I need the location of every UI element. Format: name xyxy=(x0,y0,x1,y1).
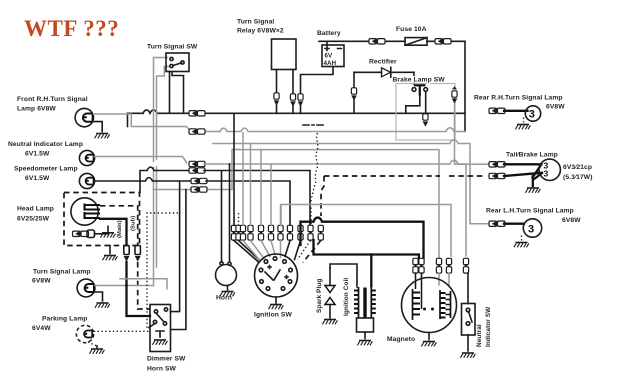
wire: relay pin1 to bus xyxy=(276,70,278,93)
spring connector right of brake SW xyxy=(452,91,458,104)
wire: gray loop ignition SW to magneto xyxy=(281,205,451,257)
svg-text:Turn Signal: Turn Signal xyxy=(237,19,274,26)
wire: black to rear LH lamp xyxy=(504,223,524,225)
ground front RH lamp xyxy=(95,134,110,139)
svg-text:WTF ???: WTF ??? xyxy=(24,16,119,41)
connector sub xyxy=(135,246,140,255)
wire: spark plug top lead xyxy=(330,264,357,287)
wire: speedometer black to connector xyxy=(94,178,193,181)
wire: top bus y=41.3 xyxy=(319,40,465,42)
svg-text:Fuse 10A: Fuse 10A xyxy=(396,26,427,33)
svg-text:3: 3 xyxy=(544,169,549,179)
wire: fan from connectors to ignition SW xyxy=(234,241,258,262)
lamp rear LH turn signal xyxy=(523,219,541,237)
wire: gray line y=189.5 xyxy=(154,189,193,191)
wire: drops from buses into connector row xyxy=(233,113,235,225)
svg-text:Rear L.H.Turn Signal Lamp: Rear L.H.Turn Signal Lamp xyxy=(486,208,574,215)
wire: neutral SW lead and ground xyxy=(467,273,469,351)
headlamp dashed enclosure xyxy=(64,193,140,246)
svg-text:3: 3 xyxy=(528,223,534,235)
lamp head lamp xyxy=(71,198,100,225)
battery BT1 xyxy=(322,45,344,67)
connector main xyxy=(124,246,129,255)
turn signal SW box xyxy=(166,53,189,72)
svg-text:Lamp 6V8W: Lamp 6V8W xyxy=(17,106,56,113)
wire: gray bus y=149.6 to magneto xyxy=(239,150,439,261)
wire: gray stub near dimmer xyxy=(120,279,167,289)
wire: gray lamp bus y=131.5 xyxy=(189,130,191,132)
svg-text:6V8W: 6V8W xyxy=(32,278,51,285)
lamp speedometer xyxy=(79,173,94,188)
svg-text:6V1.5W: 6V1.5W xyxy=(25,151,50,158)
wire: rear RH dotted ground lead xyxy=(523,118,525,123)
wire: rectifier input vertical xyxy=(353,72,355,87)
wire: gray bus y=143.5 to rear LH lamp xyxy=(213,140,490,224)
dashed brake wire xyxy=(324,175,483,177)
wire: magneto ground xyxy=(428,333,430,340)
wire: lamp to ground xyxy=(95,292,103,301)
wire: horn leads up xyxy=(222,164,230,262)
lamp turn signal (left) xyxy=(77,279,95,297)
svg-text:Turn Signal SW: Turn Signal SW xyxy=(147,44,198,51)
wire: black line y=170.5 from headlamp area xyxy=(140,167,191,192)
wire: socket to ground xyxy=(95,226,109,234)
wire: lamp to ground xyxy=(93,122,102,132)
svg-text:Horn SW: Horn SW xyxy=(147,366,177,373)
connector pair 2 xyxy=(189,129,202,135)
magneto M1 xyxy=(402,278,457,333)
ground spark plug xyxy=(322,320,337,325)
wire: neutral lamp gray to connector xyxy=(94,157,186,164)
ignition coil T1 xyxy=(354,287,376,332)
wire: relay pin2 down xyxy=(292,70,294,94)
svg-text:Dimmer SW: Dimmer SW xyxy=(147,356,186,363)
svg-text:6V4W: 6V4W xyxy=(32,325,51,332)
svg-text:Indicator SW: Indicator SW xyxy=(485,306,492,347)
wire: speedometer line continues to drop xyxy=(206,181,290,225)
svg-text:Battery: Battery xyxy=(317,30,341,37)
wire: gray neutral bus to neutral SW xyxy=(204,160,466,256)
connector pair neutral xyxy=(189,161,202,167)
wire: black tail wire to lamp xyxy=(504,163,542,165)
ground parking lamp xyxy=(89,349,104,354)
svg-text:Tail⁄Brake Lamp: Tail⁄Brake Lamp xyxy=(506,152,558,159)
wire: gray verticals from turn signal SW down to lamp bus xyxy=(154,58,168,286)
wire: turn signal SW drops xyxy=(169,72,171,113)
connectors above magneto xyxy=(413,258,418,273)
svg-text:6V1.5W: 6V1.5W xyxy=(25,175,50,182)
connector pair on bus y=113 xyxy=(189,110,202,116)
connector rear LH xyxy=(489,221,502,227)
wire: headlamp sub dashed xyxy=(100,206,138,246)
svg-text:Neutral: Neutral xyxy=(476,324,483,347)
wire: brake wire into lamp xyxy=(504,173,542,176)
wire: heavy black magneto line xyxy=(301,218,424,259)
lamp neutral indicator xyxy=(79,150,94,165)
dimmer/horn switch box xyxy=(150,305,171,352)
connector below brake SW xyxy=(425,92,427,115)
rectifier D1 xyxy=(382,67,391,77)
lamp tail/brake xyxy=(539,159,560,180)
svg-text:(Main): (Main) xyxy=(117,220,123,238)
svg-text:Neutral Indicator Lamp: Neutral Indicator Lamp xyxy=(8,141,83,148)
svg-text:Front R.H.Turn Signal: Front R.H.Turn Signal xyxy=(17,96,88,103)
connector pair speedometer xyxy=(191,178,204,184)
svg-text:4AH: 4AH xyxy=(324,60,337,67)
svg-text:(5.3⁄17W): (5.3⁄17W) xyxy=(563,174,593,181)
connector rear RH xyxy=(489,108,502,114)
wire: ignition SW ground xyxy=(275,297,277,303)
svg-text:Rectifier: Rectifier xyxy=(369,59,397,66)
wire: rectifier leads xyxy=(354,72,414,84)
lamp front RH turn signal xyxy=(75,108,93,126)
ground below headlamp box xyxy=(109,246,111,254)
horn H1 xyxy=(216,262,237,286)
svg-text:6V8W: 6V8W xyxy=(546,104,565,111)
headlamp socket connector xyxy=(73,231,86,237)
svg-text:3: 3 xyxy=(529,109,535,121)
brake lamp SW enclosure xyxy=(396,84,455,141)
connector on top bus left xyxy=(369,38,382,44)
svg-text:Speedometer Lamp: Speedometer Lamp xyxy=(14,166,78,173)
wire: battery + to top bus xyxy=(326,41,328,45)
wire: gray from front RH lamp xyxy=(94,114,190,131)
wire: tail lamp ground xyxy=(533,167,542,187)
svg-text:Relay 6V8W×2: Relay 6V8W×2 xyxy=(237,28,284,35)
svg-text:Rear R.H.Turn Signal Lamp: Rear R.H.Turn Signal Lamp xyxy=(474,95,563,102)
neutral indicator switch S3 xyxy=(462,304,476,336)
spark plug P1 xyxy=(325,268,335,318)
ground inside headlamp box xyxy=(100,233,115,238)
svg-text:6V: 6V xyxy=(325,53,334,60)
connector brake xyxy=(489,173,502,179)
wire: parking lamp dotted ground lead xyxy=(88,342,97,346)
svg-text:(Sub): (Sub) xyxy=(131,216,137,231)
wire: dash-dot stub xyxy=(303,124,323,126)
svg-text:Brake Lamp SW: Brake Lamp SW xyxy=(393,77,446,84)
wire: rear LH dotted ground lead xyxy=(521,236,523,241)
wire: dimmer switch right wires up xyxy=(171,182,186,330)
svg-text:Head Lamp: Head Lamp xyxy=(17,206,54,213)
connector tail xyxy=(489,161,502,167)
svg-text:Magneto: Magneto xyxy=(387,336,415,343)
wire: dotted handlebar loom xyxy=(147,213,178,328)
fuse F1 10A xyxy=(405,38,427,46)
wire: coil ground xyxy=(364,332,366,339)
connector on top bus right xyxy=(435,38,448,44)
svg-text:Parkıng Lamp: Parkıng Lamp xyxy=(42,316,87,323)
connector row above ignition SW xyxy=(231,225,236,240)
wire: heavy black coil-magneto line xyxy=(314,240,419,259)
svg-text:6V3⁄21cp: 6V3⁄21cp xyxy=(563,164,592,171)
brake lamp SW S2 xyxy=(412,85,428,96)
svg-text:Spark Plug: Spark Plug xyxy=(316,279,323,313)
wire: vertical from bus to gray corner xyxy=(127,113,129,126)
wire: battery negative down to bus xyxy=(301,67,334,94)
svg-text:Ignition SW: Ignition SW xyxy=(254,312,292,319)
svg-text:6V8W: 6V8W xyxy=(562,217,581,224)
svg-text:Ignition Coil: Ignition Coil xyxy=(343,278,350,316)
ground turn signal lamp xyxy=(95,303,110,308)
lamp parking (dashed) xyxy=(76,325,93,342)
turn signal relay U1 xyxy=(272,39,297,70)
wire: brake SW left terminal to bus xyxy=(406,96,420,114)
wire: black bus y=113 (battery feed) xyxy=(128,110,192,113)
wire: gray from turn signal lamp to SW drop xyxy=(95,285,154,287)
wire: connectors into magneto xyxy=(416,273,422,284)
wire: main continues down xyxy=(127,262,151,316)
wire: right vertical from fuse xyxy=(464,41,466,131)
wire: headlamp main heavy xyxy=(100,219,127,245)
ground neutral SW xyxy=(460,353,475,358)
svg-text:Turn Signal Lamp: Turn Signal Lamp xyxy=(33,269,91,276)
wire: black to rear RH lamp xyxy=(504,110,528,112)
wire: parking lamp dotted xyxy=(94,330,150,332)
ignition switch S1 xyxy=(255,254,298,297)
lamp rear RH turn signal xyxy=(525,106,540,121)
svg-text:6V25/25W: 6V25/25W xyxy=(17,216,50,223)
wire: horn ground xyxy=(227,286,229,291)
